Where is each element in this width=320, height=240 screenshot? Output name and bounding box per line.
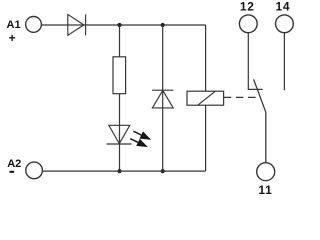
wire NO fixed contact 14	[283, 33, 285, 90]
resistor R1	[113, 57, 126, 94]
wire resistor/LED branch	[119, 25, 121, 171]
switch lever (common contact)	[254, 79, 266, 162]
LED arrow 1	[133, 131, 151, 140]
wire relay branch vertical top	[205, 25, 207, 91]
diode V1 (freewheeling)	[152, 90, 173, 108]
terminal 12	[239, 15, 257, 33]
LED	[107, 125, 132, 144]
wire relay branch vertical bottom	[205, 105, 207, 171]
node junction bottom right	[161, 169, 165, 173]
wire NC fixed contact 12	[248, 33, 262, 90]
terminal A2	[26, 162, 43, 179]
svg-text:A1: A1	[7, 19, 21, 31]
relay coil K1	[187, 91, 224, 105]
node junction top left	[117, 23, 121, 27]
wire suppressor diode branch	[162, 25, 164, 171]
svg-text:+: +	[9, 31, 16, 45]
wire bottom rail A2 to relay branch	[42, 170, 205, 172]
terminal A1	[26, 17, 42, 33]
svg-text:12: 12	[240, 0, 255, 14]
svg-text:A2: A2	[7, 158, 21, 170]
label - (A2 polarity)	[10, 171, 15, 173]
diode D1	[68, 14, 86, 35]
terminal 14	[276, 15, 294, 33]
svg-text:14: 14	[276, 0, 291, 14]
terminal 11	[257, 163, 275, 181]
svg-text:11: 11	[258, 183, 272, 197]
LED arrow 2	[130, 139, 148, 147]
mechanical link (dashed)	[224, 96, 261, 98]
wire top rail A1 to relay branch	[41, 24, 205, 26]
node junction bottom left	[117, 169, 121, 173]
node junction top right	[161, 23, 165, 27]
